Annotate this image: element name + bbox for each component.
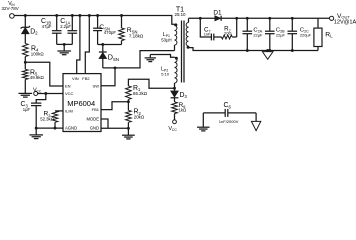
svg-text:470pF: 470pF	[104, 30, 117, 35]
junction FB1 node	[127, 100, 130, 103]
svg-text:EN: EN	[65, 83, 71, 88]
transformer T1 aux LP2	[150, 55, 174, 58]
ground C6 secondary triangle	[251, 121, 260, 130]
wire R1-R2	[127, 99, 129, 110]
junction out-C2B	[268, 17, 271, 20]
resistor R5	[23, 69, 29, 79]
junction gndrail-C2C	[291, 49, 294, 52]
ground C1	[57, 50, 71, 52]
resistor R3	[52, 111, 58, 122]
junction VCC-C3	[44, 92, 47, 95]
ground LP2	[145, 57, 156, 59]
capacitor C3	[36, 94, 46, 104]
capacitor C6	[203, 112, 225, 114]
wire C6 right gnd	[255, 113, 257, 122]
junction LS phase dot	[187, 46, 190, 49]
ground C6 primary	[197, 126, 210, 128]
resistor R7	[222, 35, 233, 39]
svg-text:MODE: MODE	[86, 116, 99, 121]
svg-text:SW: SW	[93, 83, 100, 88]
capacitor C2A	[246, 18, 248, 31]
svg-text:1µF: 1µF	[23, 107, 31, 112]
node VIN input terminal	[10, 14, 15, 19]
wire R6-Vcc	[174, 114, 176, 120]
wire R5-gnd	[24, 80, 26, 94]
svg-text:VIN: VIN	[72, 76, 79, 81]
wire LP2 bottom	[174, 83, 176, 88]
svg-text:20Ω: 20Ω	[224, 31, 231, 36]
transformer T1 core	[181, 21, 183, 83]
wire R4-R5	[24, 57, 26, 63]
wire D2-R4	[24, 34, 26, 44]
junction SW tee	[114, 66, 117, 69]
capacitor CSN	[97, 16, 99, 29]
wire secondary bottom	[189, 46, 319, 51]
svg-text:52.3kΩ: 52.3kΩ	[40, 117, 55, 122]
wire R5 stub top	[24, 62, 26, 69]
wire VIN pin drop	[77, 16, 80, 74]
node VCC terminal	[34, 92, 38, 96]
wire input rail	[14, 16, 174, 25]
wire VCC pin	[38, 93, 63, 95]
wire R2 gnd stem	[127, 128, 129, 135]
svg-text:22µF: 22µF	[276, 32, 286, 37]
junction R4-R5 node	[24, 61, 27, 64]
ground secondary triangle	[267, 51, 269, 52]
wire C1 bottoms	[57, 43, 73, 45]
svg-text:FB2: FB2	[82, 76, 90, 81]
ground R2	[122, 134, 135, 136]
junction rail-RSN	[120, 14, 123, 17]
wire C6 left gnd	[202, 113, 204, 127]
wire SW pin	[101, 68, 115, 86]
junction gndrail-tri	[266, 49, 269, 52]
wire FB2 pin drop	[85, 16, 89, 74]
svg-text:CC: CC	[172, 128, 178, 132]
svg-text:100kΩ: 100kΩ	[31, 52, 45, 57]
transformer T1 secondary LS	[188, 18, 190, 22]
resistor R6	[174, 98, 176, 102]
diode D2 zener	[22, 26, 29, 28]
ground main AGND	[29, 134, 43, 136]
svg-text:5:10: 5:10	[161, 71, 170, 76]
svg-text:220µF: 220µF	[300, 32, 312, 37]
svg-text:7.18kΩ: 7.18kΩ	[129, 33, 144, 38]
junction rail-C1A	[71, 14, 74, 17]
junction R3-AGND	[54, 127, 57, 130]
wire aux feedback	[128, 79, 174, 88]
svg-text:1nF/2000V: 1nF/2000V	[219, 119, 239, 124]
svg-text:VCC: VCC	[65, 91, 74, 96]
diode DSN	[102, 45, 104, 53]
wire output rail	[221, 17, 329, 19]
junction rail-VINpin	[78, 14, 81, 17]
wire EN net	[25, 62, 63, 86]
wire FB1 pin	[101, 102, 128, 110]
wire snubber bottom	[98, 44, 122, 46]
svg-text:22µF: 22µF	[253, 32, 263, 37]
wire LP2 top gnd stem	[149, 55, 151, 58]
junction out-C2A	[246, 17, 249, 20]
junction gndrail-C2A	[246, 49, 249, 52]
capacitor C1B	[56, 16, 58, 31]
wire GND pin run	[101, 127, 128, 129]
wire MODE pin	[101, 119, 108, 128]
svg-text:AGND: AGND	[65, 126, 77, 131]
junction LP1 phase dot	[174, 23, 177, 26]
resistor R4	[23, 44, 29, 57]
capacitor C7 snubber	[200, 18, 211, 37]
wire D2 cathode stem	[24, 16, 26, 28]
resistor RL	[317, 18, 319, 28]
junction out-C2C	[291, 17, 294, 20]
junction rail-FB2	[88, 14, 91, 17]
diode D3	[174, 88, 176, 91]
junction snubber2 left	[199, 17, 202, 20]
svg-text:47µF: 47µF	[42, 24, 52, 29]
node VCC aux terminal	[173, 120, 177, 124]
wire R2-gnd	[127, 122, 129, 128]
junction rail-C1B	[55, 14, 58, 17]
capacitor C1A	[71, 16, 73, 31]
ground R5	[19, 92, 33, 94]
svg-text:1nF: 1nF	[204, 32, 211, 37]
junction snubber-DSN	[101, 43, 104, 46]
resistor RSN	[121, 16, 123, 29]
resistor R1	[126, 86, 132, 100]
wire AGND rail	[36, 127, 63, 129]
svg-text:GND: GND	[90, 126, 99, 131]
junction LP2 phase dot	[175, 57, 178, 60]
wire secondary top	[189, 17, 215, 19]
op-amp U1 MP6004 body	[63, 74, 101, 132]
svg-text:32V-78V: 32V-78V	[2, 6, 19, 11]
svg-text:1kΩ: 1kΩ	[179, 107, 187, 112]
transformer T1 primary LP1	[174, 24, 176, 25]
capacitor C2B	[269, 18, 271, 31]
wire SW net	[103, 51, 175, 68]
wire ILIM pin	[55, 110, 63, 112]
svg-text:86.2kΩ: 86.2kΩ	[133, 91, 148, 96]
resistor R2	[126, 110, 132, 122]
wire R3-AGND	[54, 122, 56, 128]
svg-text:12V@1A: 12V@1A	[334, 20, 356, 26]
svg-text:49.9kΩ: 49.9kΩ	[30, 75, 45, 80]
junction rail-CSN	[96, 14, 99, 17]
svg-text:2.2µF: 2.2µF	[60, 24, 71, 29]
svg-text:FB1: FB1	[92, 107, 100, 112]
junction LP2-D3-R1 node	[173, 87, 176, 90]
diode D1	[215, 16, 221, 21]
svg-text:25:10: 25:10	[175, 12, 187, 17]
node VOUT terminal	[330, 16, 334, 20]
junction C3-AGND	[35, 127, 38, 130]
junction gndrail-C2B	[268, 49, 271, 52]
svg-text:D1: D1	[213, 10, 222, 17]
junction snubber2 right	[235, 17, 238, 20]
svg-text:ILIM: ILIM	[65, 108, 73, 113]
svg-text:20kΩ: 20kΩ	[134, 114, 145, 119]
junction rail-D2	[24, 14, 27, 17]
junction GND-R2	[127, 127, 130, 130]
capacitor C2C	[291, 18, 293, 31]
svg-text:53µH: 53µH	[161, 37, 171, 42]
